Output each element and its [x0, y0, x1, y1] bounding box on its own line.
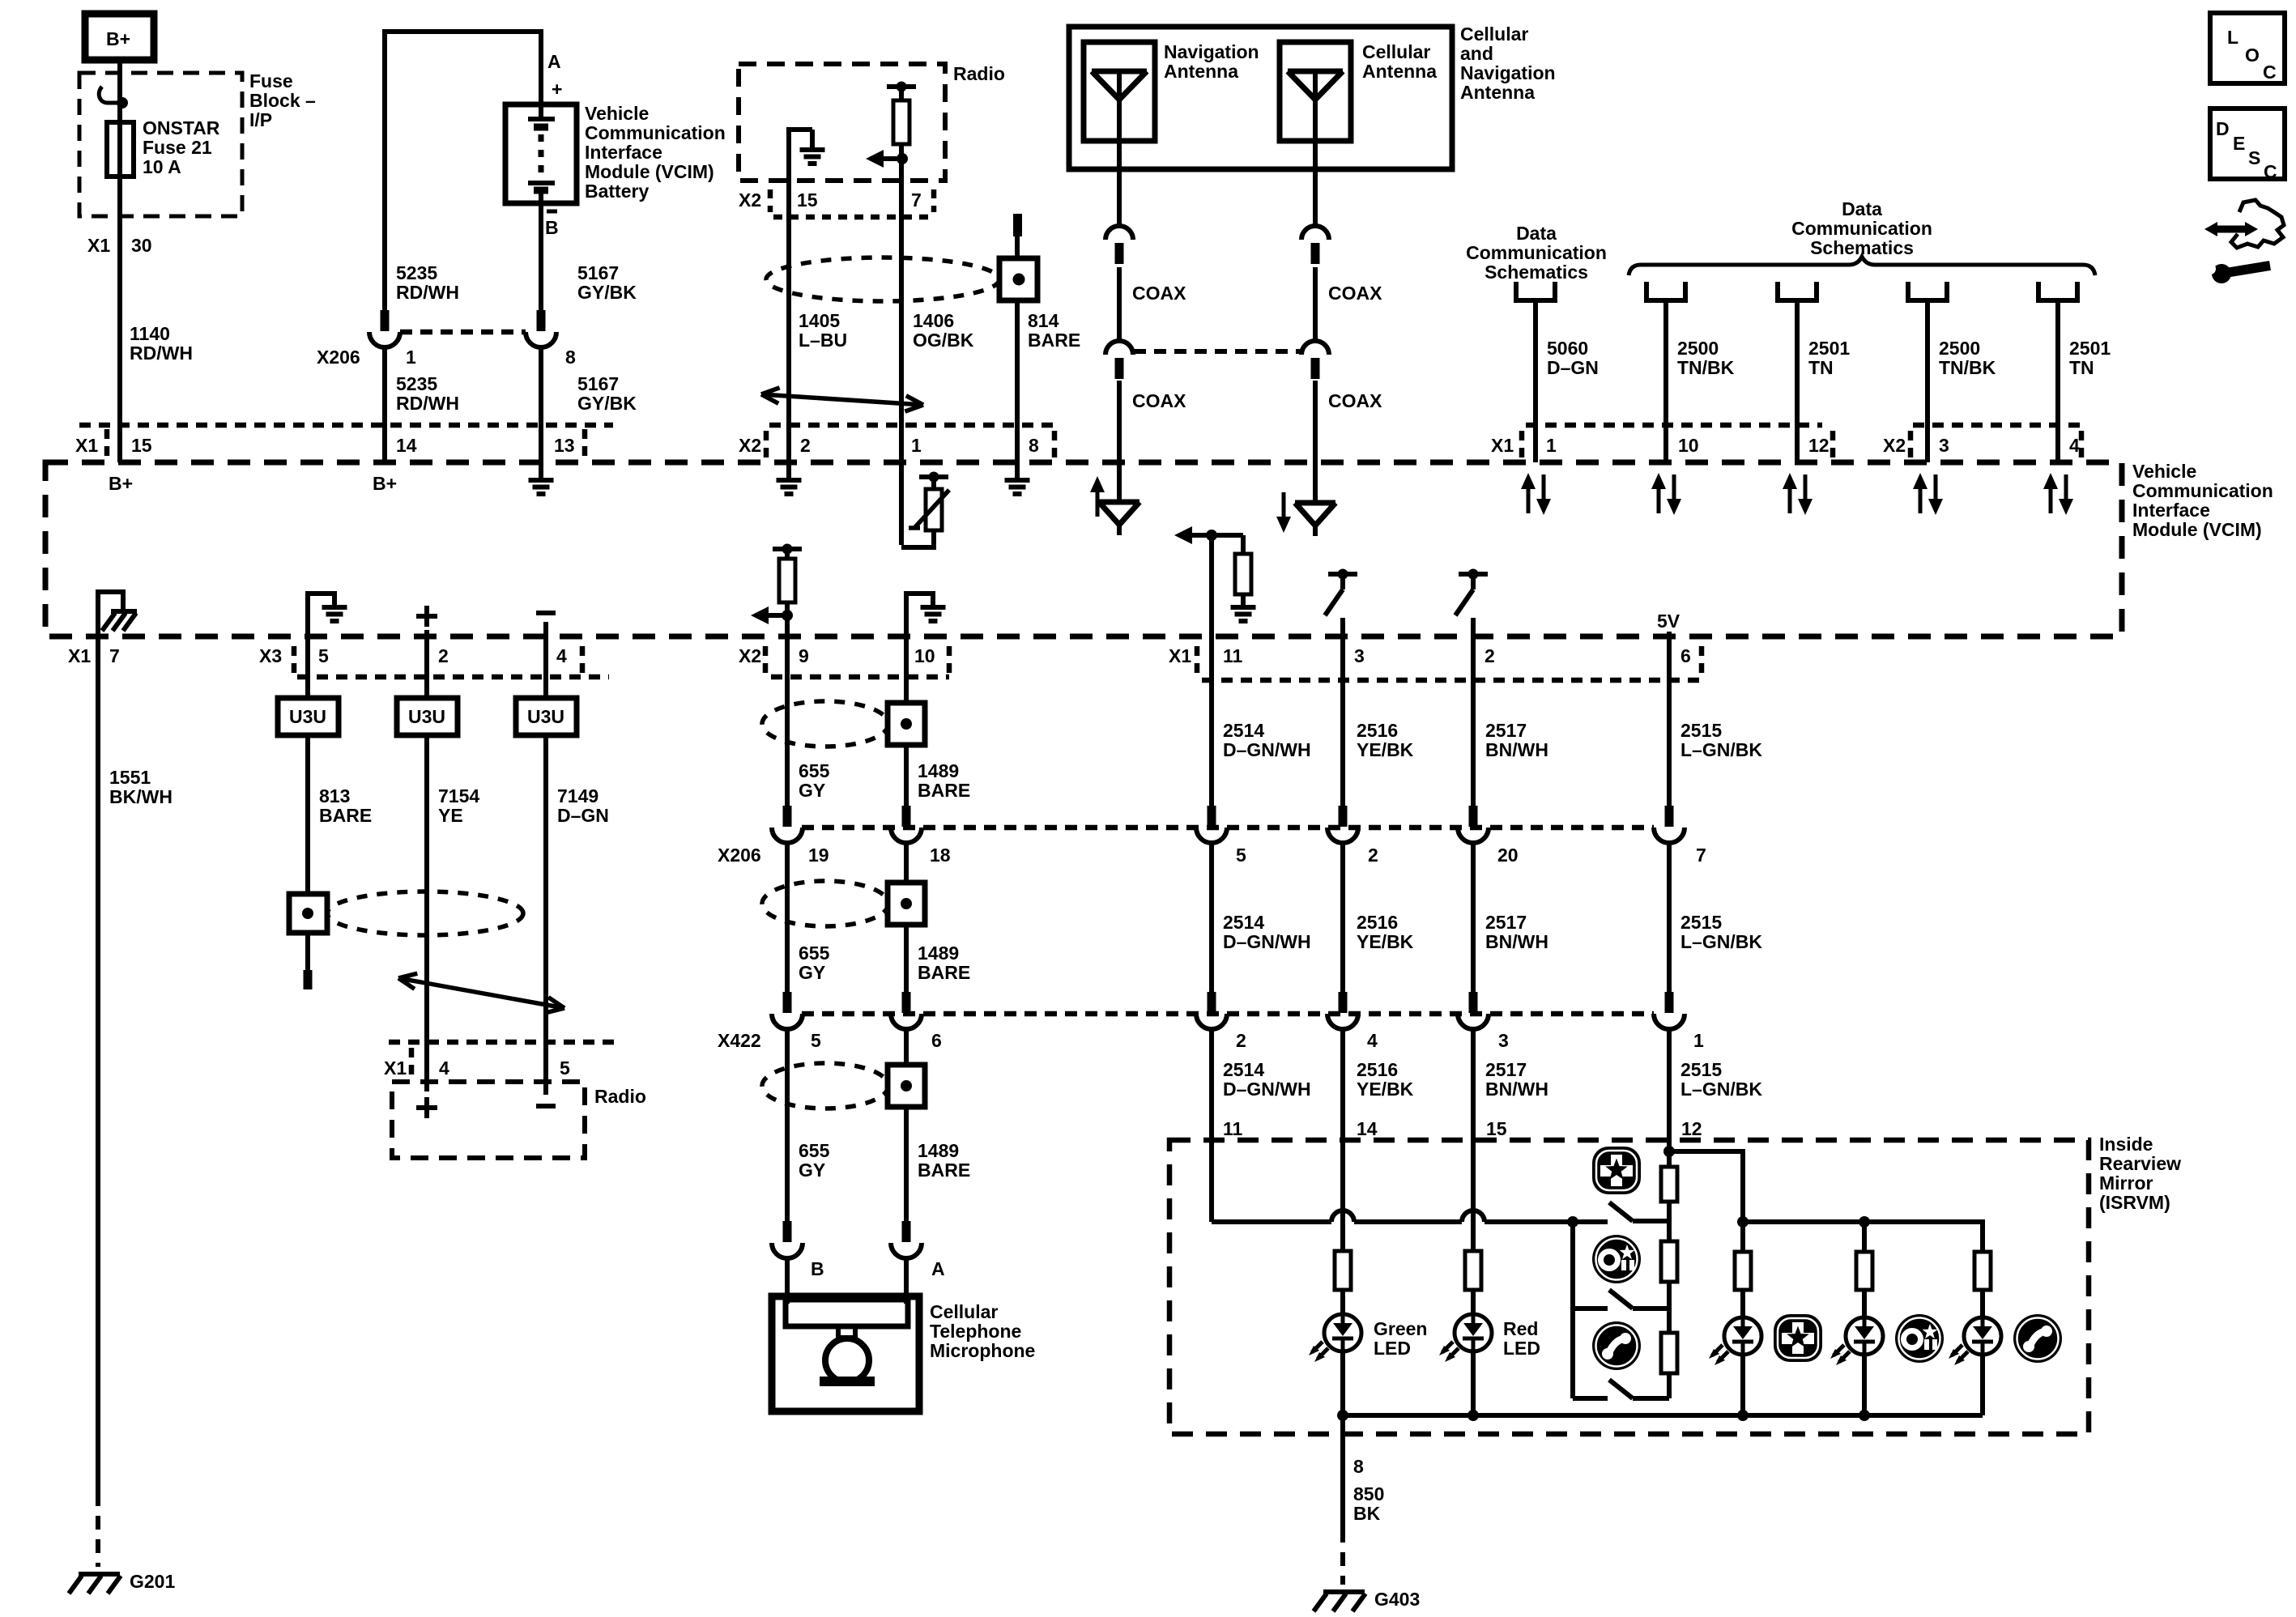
- svg-text:S: S: [2248, 147, 2260, 168]
- icon onstar button left: [1592, 1235, 1641, 1283]
- svg-text:X1: X1: [87, 235, 110, 256]
- feed line to LED bank: [1669, 1151, 1743, 1222]
- svg-text:GY/BK: GY/BK: [577, 282, 637, 303]
- wire 814 lower segment: [1015, 300, 1020, 462]
- svg-text:2514: 2514: [1223, 1059, 1264, 1080]
- serial data arrows pin X2-3: [1919, 486, 1923, 513]
- cellular telephone microphone box: [772, 1296, 919, 1411]
- off-page bracket circuit 5060: [1516, 282, 1555, 300]
- svg-text:U3U: U3U: [289, 706, 326, 727]
- pin row X3 dotted box: [292, 646, 297, 674]
- junction LED bank 2: [1859, 1216, 1870, 1228]
- shield ellipse mic row3: [762, 1063, 888, 1108]
- wire 2515 upper: [1667, 636, 1672, 807]
- svg-text:19: 19: [808, 845, 829, 866]
- coax connector cell upper: [1301, 226, 1329, 240]
- svg-text:5: 5: [318, 645, 329, 666]
- connector X422 row line: [802, 1011, 1654, 1017]
- svg-text:B+: B+: [109, 473, 133, 494]
- connector X206 row2 line: [802, 825, 1654, 831]
- LED string 2: [1862, 1222, 1867, 1252]
- wire pin 15 to red LED branch: [1471, 1140, 1476, 1251]
- svg-text:X1: X1: [75, 435, 98, 456]
- svg-text:X422: X422: [718, 1030, 761, 1051]
- connector X422-1: [1665, 992, 1674, 1013]
- svg-text:YE/BK: YE/BK: [1357, 931, 1414, 952]
- pin row X1 4 5 dotted line: [389, 1040, 616, 1045]
- svg-text:D–GN/WH: D–GN/WH: [1223, 931, 1311, 952]
- ground at pin X2-2 inside VCIM: [786, 462, 791, 479]
- brace over data communication circuits: [1629, 257, 2095, 275]
- minus terminal in radio: [536, 1104, 556, 1108]
- svg-text:813: 813: [319, 785, 350, 806]
- svg-text:Cellular: Cellular: [930, 1301, 998, 1322]
- svg-text:5235: 5235: [396, 262, 437, 283]
- svg-text:RD/WH: RD/WH: [130, 343, 193, 364]
- svg-text:U3U: U3U: [527, 706, 564, 727]
- svg-text:655: 655: [799, 760, 830, 781]
- shield ellipse X3 audio: [327, 891, 523, 935]
- svg-text:4: 4: [556, 645, 567, 666]
- schematic service icon arrows and wrench: [2204, 222, 2217, 236]
- shield ellipse mic row2: [762, 881, 888, 926]
- svg-text:11: 11: [1223, 1118, 1243, 1139]
- svg-text:2500: 2500: [1677, 338, 1719, 359]
- svg-text:5167: 5167: [577, 373, 619, 394]
- icon emergency button left: [1592, 1147, 1641, 1194]
- svg-text:X1: X1: [1491, 435, 1514, 456]
- svg-text:D: D: [2216, 118, 2230, 139]
- connector mic B: [783, 1221, 792, 1242]
- svg-text:5: 5: [811, 1030, 821, 1051]
- svg-text:5V: 5V: [1657, 611, 1680, 632]
- svg-text:12: 12: [1808, 435, 1830, 456]
- svg-text:Fuse: Fuse: [249, 70, 293, 91]
- svg-text:BN/WH: BN/WH: [1485, 931, 1548, 952]
- svg-text:COAX: COAX: [1328, 390, 1382, 411]
- switch input at pin X1-2: [1459, 572, 1488, 577]
- junction dot on fuse feed: [117, 97, 128, 109]
- junction ground bus bank2: [1859, 1410, 1870, 1421]
- VCIM battery box: [505, 104, 577, 203]
- svg-text:7: 7: [109, 645, 120, 666]
- ISRVM ground bus: [1343, 1413, 1983, 1418]
- svg-text:Green: Green: [1374, 1318, 1427, 1339]
- LED bank bus: [1743, 1222, 1983, 1252]
- svg-text:BARE: BARE: [918, 1160, 970, 1181]
- wire 7149 lower: [543, 735, 548, 1095]
- svg-text:Rearview: Rearview: [2099, 1153, 2181, 1174]
- svg-text:2515: 2515: [1680, 720, 1722, 741]
- microphone element: [786, 1300, 908, 1326]
- svg-text:Navigation: Navigation: [1164, 41, 1259, 62]
- icon phone right: [2013, 1314, 2062, 1363]
- coax connector nav upper: [1105, 226, 1133, 240]
- svg-text:7154: 7154: [438, 785, 479, 806]
- coax nav lower segment: [1117, 381, 1122, 462]
- serial data arrows pin X2-4: [2049, 486, 2053, 513]
- svg-text:2516: 2516: [1357, 1059, 1398, 1080]
- svg-text:1405: 1405: [799, 310, 840, 331]
- svg-text:7149: 7149: [557, 785, 598, 806]
- svg-text:1489: 1489: [918, 943, 959, 964]
- junction ground bus bank1: [1737, 1410, 1749, 1421]
- inline splice connector on drain wire 814: [999, 258, 1037, 300]
- vehicle communication interface module VCIM dashed box: [45, 462, 2122, 636]
- svg-text:15: 15: [131, 435, 152, 456]
- wire pin 14 to green LED branch: [1340, 1140, 1345, 1251]
- battery cell plates: [539, 104, 543, 119]
- wire 655 mid: [785, 841, 790, 998]
- svg-text:Interface: Interface: [2132, 500, 2210, 521]
- svg-text:D–GN/WH: D–GN/WH: [1223, 1079, 1311, 1100]
- shield ellipse mic row1: [762, 701, 888, 747]
- svg-text:11: 11: [1223, 645, 1243, 666]
- wire 1489 mid: [904, 841, 909, 884]
- bus hop over wire 14: [1331, 1211, 1354, 1222]
- svg-text:5060: 5060: [1547, 338, 1588, 359]
- signal bus from pin 11: [1212, 1219, 1608, 1224]
- wire 1489 lower: [904, 1028, 909, 1066]
- nav receive antenna symbol inside VCIM: [1096, 489, 1100, 517]
- resistor in radio on circuit 1406: [887, 84, 916, 89]
- inside rearview mirror ISRVM dashed box: [1169, 1140, 2089, 1434]
- connector X206-5: [1208, 806, 1216, 827]
- connector X206-2: [1339, 806, 1348, 827]
- pin row X1 1 dotted box: [1526, 423, 1822, 428]
- svg-text:Module (VCIM): Module (VCIM): [2132, 519, 2262, 540]
- svg-text:X206: X206: [317, 347, 360, 368]
- LED string 1: [1740, 1222, 1745, 1252]
- svg-text:X2: X2: [1883, 435, 1906, 456]
- svg-text:C: C: [2264, 161, 2277, 182]
- svg-text:Antenna: Antenna: [1362, 61, 1437, 82]
- svg-text:G201: G201: [130, 1571, 175, 1592]
- connector X206-7: [1665, 806, 1674, 827]
- svg-text:5167: 5167: [577, 262, 619, 283]
- U3U box circuit 7149: [516, 698, 577, 735]
- svg-text:Communication: Communication: [1791, 218, 1932, 239]
- svg-text:850: 850: [1353, 1483, 1384, 1504]
- svg-text:X206: X206: [718, 845, 761, 866]
- svg-text:BARE: BARE: [918, 780, 970, 801]
- ground symbol in radio: [810, 130, 815, 149]
- svg-text:Schematics: Schematics: [1485, 262, 1588, 283]
- svg-text:1: 1: [406, 347, 416, 368]
- wire 813 end stub: [305, 933, 310, 972]
- radio dashed outline top: [739, 64, 945, 181]
- svg-text:Mirror: Mirror: [2099, 1172, 2153, 1194]
- switch input at pin X1-3: [1328, 572, 1357, 577]
- off-page bracket circuit 2501 right: [2038, 282, 2077, 300]
- pin row X1 15 dotted box: [79, 423, 613, 428]
- twisted pair marker X3 audio: [398, 978, 564, 1008]
- chain node A link: [1667, 1202, 1672, 1241]
- svg-text:X2: X2: [739, 645, 761, 666]
- cell transmit antenna symbol inside VCIM: [1282, 492, 1286, 520]
- inline splice on 813 shield: [289, 894, 327, 933]
- svg-text:18: 18: [930, 845, 951, 866]
- wire 5060 D-GN: [1533, 300, 1538, 462]
- wire 2501 TN right: [2055, 300, 2060, 462]
- svg-text:BN/WH: BN/WH: [1485, 739, 1548, 760]
- svg-text:TN: TN: [2069, 357, 2094, 378]
- serial data arrows pin 12: [1788, 486, 1792, 513]
- svg-text:U3U: U3U: [408, 706, 445, 727]
- wire 5235 vertical: [382, 29, 387, 323]
- suppression varistor loop at pin X2-1: [899, 462, 904, 545]
- off-page bracket circuit 2501 left: [1778, 282, 1817, 300]
- svg-text:2516: 2516: [1357, 912, 1398, 933]
- svg-text:10: 10: [1678, 435, 1699, 456]
- svg-text:10: 10: [914, 645, 935, 666]
- svg-text:L–GN/BK: L–GN/BK: [1680, 1079, 1762, 1100]
- svg-text:6: 6: [931, 1030, 942, 1051]
- connector X206 pin 8 inline: [537, 310, 546, 331]
- power feed B+ box: [85, 14, 154, 60]
- svg-text:2515: 2515: [1680, 912, 1722, 933]
- svg-text:Telephone: Telephone: [930, 1321, 1021, 1342]
- svg-text:X1: X1: [384, 1057, 407, 1079]
- svg-text:+: +: [552, 79, 562, 100]
- connector X422-2: [1208, 992, 1216, 1013]
- inline splice 1489 row1: [888, 703, 925, 745]
- wire 7154 upper: [424, 636, 429, 698]
- svg-text:TN/BK: TN/BK: [1677, 357, 1735, 378]
- wire 2515 lower: [1667, 1028, 1672, 1140]
- U3U box circuit 813: [278, 698, 339, 735]
- chassis ground at pin X1-7 inside VCIM: [98, 592, 123, 636]
- svg-text:Data: Data: [1516, 223, 1557, 244]
- svg-text:TN/BK: TN/BK: [1939, 357, 1996, 378]
- LED string 3: [1974, 1252, 1991, 1290]
- svg-text:15: 15: [797, 189, 818, 211]
- svg-text:1406: 1406: [913, 310, 954, 331]
- wire 5167 lower segment: [539, 346, 543, 462]
- svg-text:Cellular: Cellular: [1460, 23, 1528, 45]
- twisted pair marker radio circuits: [761, 394, 923, 405]
- fuse pull-tab hook: [99, 87, 122, 103]
- svg-text:5: 5: [1236, 845, 1246, 866]
- svg-text:Vehicle: Vehicle: [2132, 461, 2196, 482]
- resistor chain R3: [1661, 1333, 1677, 1373]
- drain wire 814 top cap: [1013, 214, 1022, 236]
- radio pin row X2 15 7: [773, 215, 935, 220]
- wire 1551 dashed segment: [96, 1492, 100, 1567]
- svg-text:Communication: Communication: [2132, 480, 2273, 501]
- svg-text:B: B: [545, 217, 559, 238]
- svg-text:15: 15: [1486, 1118, 1507, 1139]
- cellular antenna symbol: [1288, 69, 1343, 74]
- svg-text:BARE: BARE: [319, 805, 372, 826]
- connector X422-4: [1339, 992, 1348, 1013]
- navigation antenna symbol: [1092, 69, 1147, 74]
- switch rail vertical: [1570, 1222, 1575, 1398]
- connector X422-6: [902, 992, 911, 1013]
- svg-text:X1: X1: [68, 645, 91, 666]
- wire 7154 lower: [424, 735, 429, 1091]
- svg-text:3: 3: [1939, 435, 1949, 456]
- wire into mic A: [904, 1257, 909, 1304]
- svg-text:Fuse 21: Fuse 21: [143, 137, 212, 158]
- arrow and junction at pin X1-11: [1174, 526, 1192, 544]
- junction switch rail: [1567, 1216, 1578, 1228]
- wire 5235 lower segment: [382, 346, 387, 462]
- svg-text:GY: GY: [799, 780, 825, 801]
- svg-text:RD/WH: RD/WH: [396, 393, 459, 414]
- svg-text:A: A: [547, 51, 561, 72]
- svg-text:2: 2: [438, 645, 449, 666]
- shield ellipse around 1405/1406: [766, 257, 999, 301]
- wire 2517 lower: [1471, 1028, 1476, 1140]
- switch 3 phone: [1573, 1396, 1608, 1401]
- switch 1 emergency: [1633, 1219, 1667, 1223]
- serial data arrows pin 10: [1657, 486, 1661, 513]
- fuse F21 ONSTAR: [107, 122, 134, 177]
- navigation antenna inner box: [1084, 42, 1155, 141]
- wire 2500 TN/BK left: [1663, 300, 1668, 462]
- svg-text:O: O: [2245, 45, 2260, 66]
- wire 813 to splice: [305, 735, 310, 894]
- pin row X2 3 4 dotted box: [1913, 423, 2081, 428]
- svg-text:B+: B+: [373, 473, 397, 494]
- junction LED bank 1: [1737, 1216, 1749, 1228]
- svg-text:(ISRVM): (ISRVM): [2099, 1192, 2170, 1213]
- svg-text:Data: Data: [1842, 198, 1882, 219]
- svg-text:GY: GY: [799, 1160, 825, 1181]
- svg-text:G403: G403: [1374, 1589, 1420, 1610]
- cellular and navigation antenna outer box: [1069, 27, 1452, 169]
- chain node C link: [1667, 1373, 1672, 1398]
- svg-text:1: 1: [1693, 1030, 1704, 1051]
- svg-text:Inside: Inside: [2099, 1134, 2153, 1155]
- svg-text:1: 1: [1546, 435, 1557, 456]
- svg-text:20: 20: [1497, 845, 1519, 866]
- svg-text:Communication: Communication: [585, 122, 726, 143]
- svg-text:I/P: I/P: [249, 109, 272, 130]
- svg-text:Radio: Radio: [594, 1086, 646, 1107]
- svg-text:YE/BK: YE/BK: [1357, 739, 1414, 760]
- svg-text:14: 14: [396, 435, 417, 456]
- svg-text:Radio: Radio: [953, 63, 1005, 84]
- coax connector pair lower with tie: [1105, 341, 1133, 355]
- svg-text:A: A: [931, 1258, 945, 1279]
- pin row X2 2 1 8 dotted box: [769, 423, 1057, 428]
- off-page bracket circuit 2500 left: [1646, 282, 1685, 300]
- svg-text:X2: X2: [739, 435, 761, 456]
- svg-text:BN/WH: BN/WH: [1485, 1079, 1548, 1100]
- svg-text:B+: B+: [106, 28, 130, 49]
- svg-text:2: 2: [1236, 1030, 1246, 1051]
- svg-text:BARE: BARE: [918, 962, 970, 983]
- svg-text:GY: GY: [799, 962, 825, 983]
- LOC legend box: [2210, 13, 2285, 83]
- pin row dots 10 12 box end: [1830, 431, 1836, 458]
- svg-text:Microphone: Microphone: [930, 1340, 1035, 1361]
- svg-text:2517: 2517: [1485, 912, 1527, 933]
- ground at pin X2-8 inside VCIM: [1015, 462, 1020, 479]
- junction and arrow at pin X2-9: [782, 610, 793, 621]
- connector X422-3: [1469, 992, 1478, 1013]
- coax nav mid segment: [1117, 267, 1122, 341]
- svg-text:COAX: COAX: [1132, 390, 1186, 411]
- pin row X1 11 3 2 6 dotted box: [1195, 646, 1200, 674]
- svg-text:2517: 2517: [1485, 720, 1527, 741]
- svg-text:YE/BK: YE/BK: [1357, 1079, 1414, 1100]
- wire 2516 lower: [1340, 1028, 1345, 1140]
- svg-text:LED: LED: [1503, 1338, 1540, 1359]
- svg-text:YE: YE: [438, 805, 463, 826]
- connector X206 pin 1 inline: [381, 310, 390, 331]
- svg-text:Red: Red: [1503, 1318, 1538, 1339]
- svg-text:Cellular: Cellular: [1362, 41, 1430, 62]
- off-page bracket circuit 2500 right: [1908, 282, 1947, 300]
- svg-text:2: 2: [1368, 845, 1378, 866]
- connector X206-18: [902, 806, 911, 827]
- svg-text:2501: 2501: [2069, 338, 2111, 359]
- svg-text:COAX: COAX: [1328, 283, 1382, 304]
- svg-text:3: 3: [1354, 645, 1365, 666]
- svg-text:1489: 1489: [918, 1140, 959, 1161]
- red LED: [1471, 1290, 1476, 1314]
- plus terminal in radio: [416, 1105, 437, 1110]
- svg-text:2515: 2515: [1680, 1059, 1722, 1080]
- wire 5167 from battery B terminal: [539, 194, 543, 323]
- svg-text:OG/BK: OG/BK: [913, 330, 974, 351]
- svg-text:Vehicle: Vehicle: [585, 103, 649, 124]
- wire 2517 mid: [1471, 841, 1476, 998]
- svg-text:8: 8: [1029, 435, 1039, 456]
- icon phone button left: [1592, 1321, 1641, 1370]
- fuse block dashed outline: [79, 73, 242, 216]
- minus at pin X3-4: [536, 611, 556, 615]
- svg-text:C: C: [2263, 62, 2277, 83]
- svg-text:BK/WH: BK/WH: [109, 786, 173, 807]
- coax cell lower segment: [1313, 381, 1318, 462]
- svg-text:L–BU: L–BU: [799, 330, 847, 351]
- wire 2514 mid: [1209, 841, 1214, 998]
- svg-text:814: 814: [1028, 310, 1059, 331]
- icon onstar right: [1895, 1314, 1944, 1363]
- svg-text:2: 2: [800, 435, 811, 456]
- wire 2516 mid: [1340, 841, 1345, 998]
- svg-text:BK: BK: [1353, 1503, 1381, 1524]
- connector X422-5: [783, 992, 792, 1013]
- wire 2517 upper: [1471, 636, 1476, 807]
- svg-text:1489: 1489: [918, 760, 959, 781]
- resistor chain R1: [1661, 1167, 1677, 1202]
- svg-text:2501: 2501: [1808, 338, 1850, 359]
- junction pin 12 feed: [1663, 1146, 1675, 1157]
- connector X206-19: [783, 806, 792, 827]
- svg-text:9: 9: [799, 645, 809, 666]
- svg-text:12: 12: [1681, 1118, 1702, 1139]
- wire from B+ through fuse to pin X1-15: [117, 60, 122, 462]
- wire pin 8 ground drop: [1340, 1415, 1345, 1529]
- resistor red LED: [1465, 1251, 1481, 1290]
- plus at pin X3-2: [416, 614, 437, 619]
- junction dot and arrow in radio: [897, 153, 908, 164]
- wire battery loop top: [385, 29, 541, 34]
- svg-text:Communication: Communication: [1466, 242, 1607, 263]
- svg-text:Antenna: Antenna: [1460, 82, 1535, 103]
- U3U box circuit 7154: [397, 698, 458, 735]
- pullup resistor to ground at pin X1-11: [1212, 533, 1243, 538]
- svg-text:4: 4: [439, 1057, 449, 1079]
- svg-text:ONSTAR: ONSTAR: [143, 117, 220, 138]
- svg-text:L–GN/BK: L–GN/BK: [1680, 739, 1762, 760]
- svg-text:Module (VCIM): Module (VCIM): [585, 161, 714, 182]
